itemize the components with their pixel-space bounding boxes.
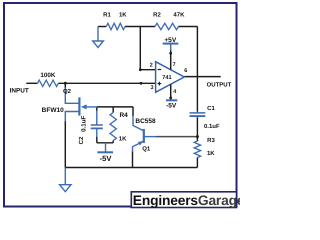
wire: Q2 source down to bottom rail bbox=[64, 121, 66, 168]
wire: bottom rail bbox=[65, 167, 197, 169]
svg-text:EngineersGarage: EngineersGarage bbox=[133, 193, 240, 208]
node: base/C1/R3 junction bbox=[196, 135, 199, 138]
svg-text:6: 6 bbox=[184, 68, 187, 74]
node: pin7 supply junction bbox=[169, 52, 172, 55]
wire: C2 left branch verticals bbox=[96, 107, 98, 111]
wire: input line through node to op-amp pin 3 bbox=[26, 82, 37, 84]
svg-text:4: 4 bbox=[173, 89, 176, 95]
-5V supply bar (op-amp pin 4) bbox=[166, 99, 177, 101]
wire: op-amp output to OUTPUT terminal bbox=[184, 76, 220, 78]
op-amp pin 7 stub bbox=[170, 50, 172, 70]
svg-text:2: 2 bbox=[150, 63, 153, 69]
-5V supply (under C2/R4 box) bbox=[97, 143, 113, 153]
resistor R2 bbox=[155, 23, 179, 29]
wire: Q1 emitter down to bottom rail bbox=[132, 151, 134, 168]
wire: right vertical feedback/output column bbox=[196, 27, 198, 112]
svg-text:BFW10: BFW10 bbox=[42, 107, 64, 114]
capacitor C2 bbox=[91, 111, 103, 138]
outer frame border bbox=[4, 3, 237, 207]
wire: bottom of C2/R4 box bbox=[97, 142, 113, 144]
ground bottom bbox=[60, 168, 71, 192]
svg-text:1K: 1K bbox=[119, 135, 127, 142]
op-amp pin 4 stub bbox=[170, 84, 172, 98]
wire: Q1 base to C1/R3 junction bbox=[156, 136, 197, 138]
wire: R4 branch verticals bbox=[112, 107, 114, 113]
svg-text:R3: R3 bbox=[207, 137, 215, 144]
svg-text:741: 741 bbox=[162, 75, 171, 81]
svg-text:OUTPUT: OUTPUT bbox=[207, 82, 232, 89]
resistor R4 bbox=[110, 113, 116, 141]
svg-text:INPUT: INPUT bbox=[10, 88, 29, 95]
svg-text:3: 3 bbox=[151, 85, 154, 91]
svg-text:47K: 47K bbox=[173, 11, 185, 18]
svg-text:-5V: -5V bbox=[166, 103, 177, 110]
wire: Q1 collector riser bbox=[132, 107, 134, 116]
wire: top net from ground corner through R1,R2 to right corner bbox=[98, 26, 197, 28]
logo EngineersGarage bbox=[131, 192, 245, 208]
wire: gate net from Q2 to Q1 collector corner bbox=[97, 106, 133, 108]
capacitor C1 bbox=[190, 112, 206, 118]
svg-text:0.1uF: 0.1uF bbox=[80, 116, 87, 132]
svg-text:-5V: -5V bbox=[100, 154, 113, 163]
svg-text:Q1: Q1 bbox=[142, 146, 151, 153]
svg-text:1K: 1K bbox=[119, 11, 127, 18]
svg-text:1K: 1K bbox=[207, 150, 215, 157]
node: pin2 corner junction bbox=[139, 68, 142, 71]
svg-text:+5V: +5V bbox=[164, 37, 177, 44]
resistor R3 bbox=[194, 141, 200, 158]
ground top-left bbox=[93, 27, 104, 48]
resistor R1 bbox=[106, 23, 125, 29]
transistor Q2 JFET BFW10 bbox=[65, 88, 97, 122]
svg-text:R1: R1 bbox=[103, 11, 111, 18]
svg-text:100K: 100K bbox=[40, 72, 56, 79]
+5V supply bar bbox=[163, 43, 179, 45]
svg-text:BC558: BC558 bbox=[135, 118, 156, 125]
svg-text:R4: R4 bbox=[119, 112, 128, 119]
node: pin3 stub endpoint bbox=[140, 82, 143, 85]
svg-text:Q2: Q2 bbox=[63, 88, 72, 95]
wire: R3 bottom lead to bottom rail bbox=[196, 158, 198, 168]
svg-text:C1: C1 bbox=[207, 105, 215, 112]
wire: R1/R2 junction down to op-amp pin 2 bbox=[140, 27, 155, 70]
op-amp U1 741 bbox=[156, 62, 185, 93]
wire: right vertical between C1 and R3 bbox=[196, 117, 198, 141]
resistor 100K input bbox=[38, 80, 59, 86]
svg-text:7: 7 bbox=[173, 62, 176, 68]
node: input/drain junction bbox=[64, 82, 67, 85]
svg-text:C2: C2 bbox=[78, 136, 85, 144]
transistor Q1 BC558 bbox=[133, 116, 157, 153]
svg-text:R2: R2 bbox=[153, 11, 161, 18]
svg-text:0.1uF: 0.1uF bbox=[204, 123, 220, 130]
node: pin4 supply junction bbox=[169, 97, 172, 100]
